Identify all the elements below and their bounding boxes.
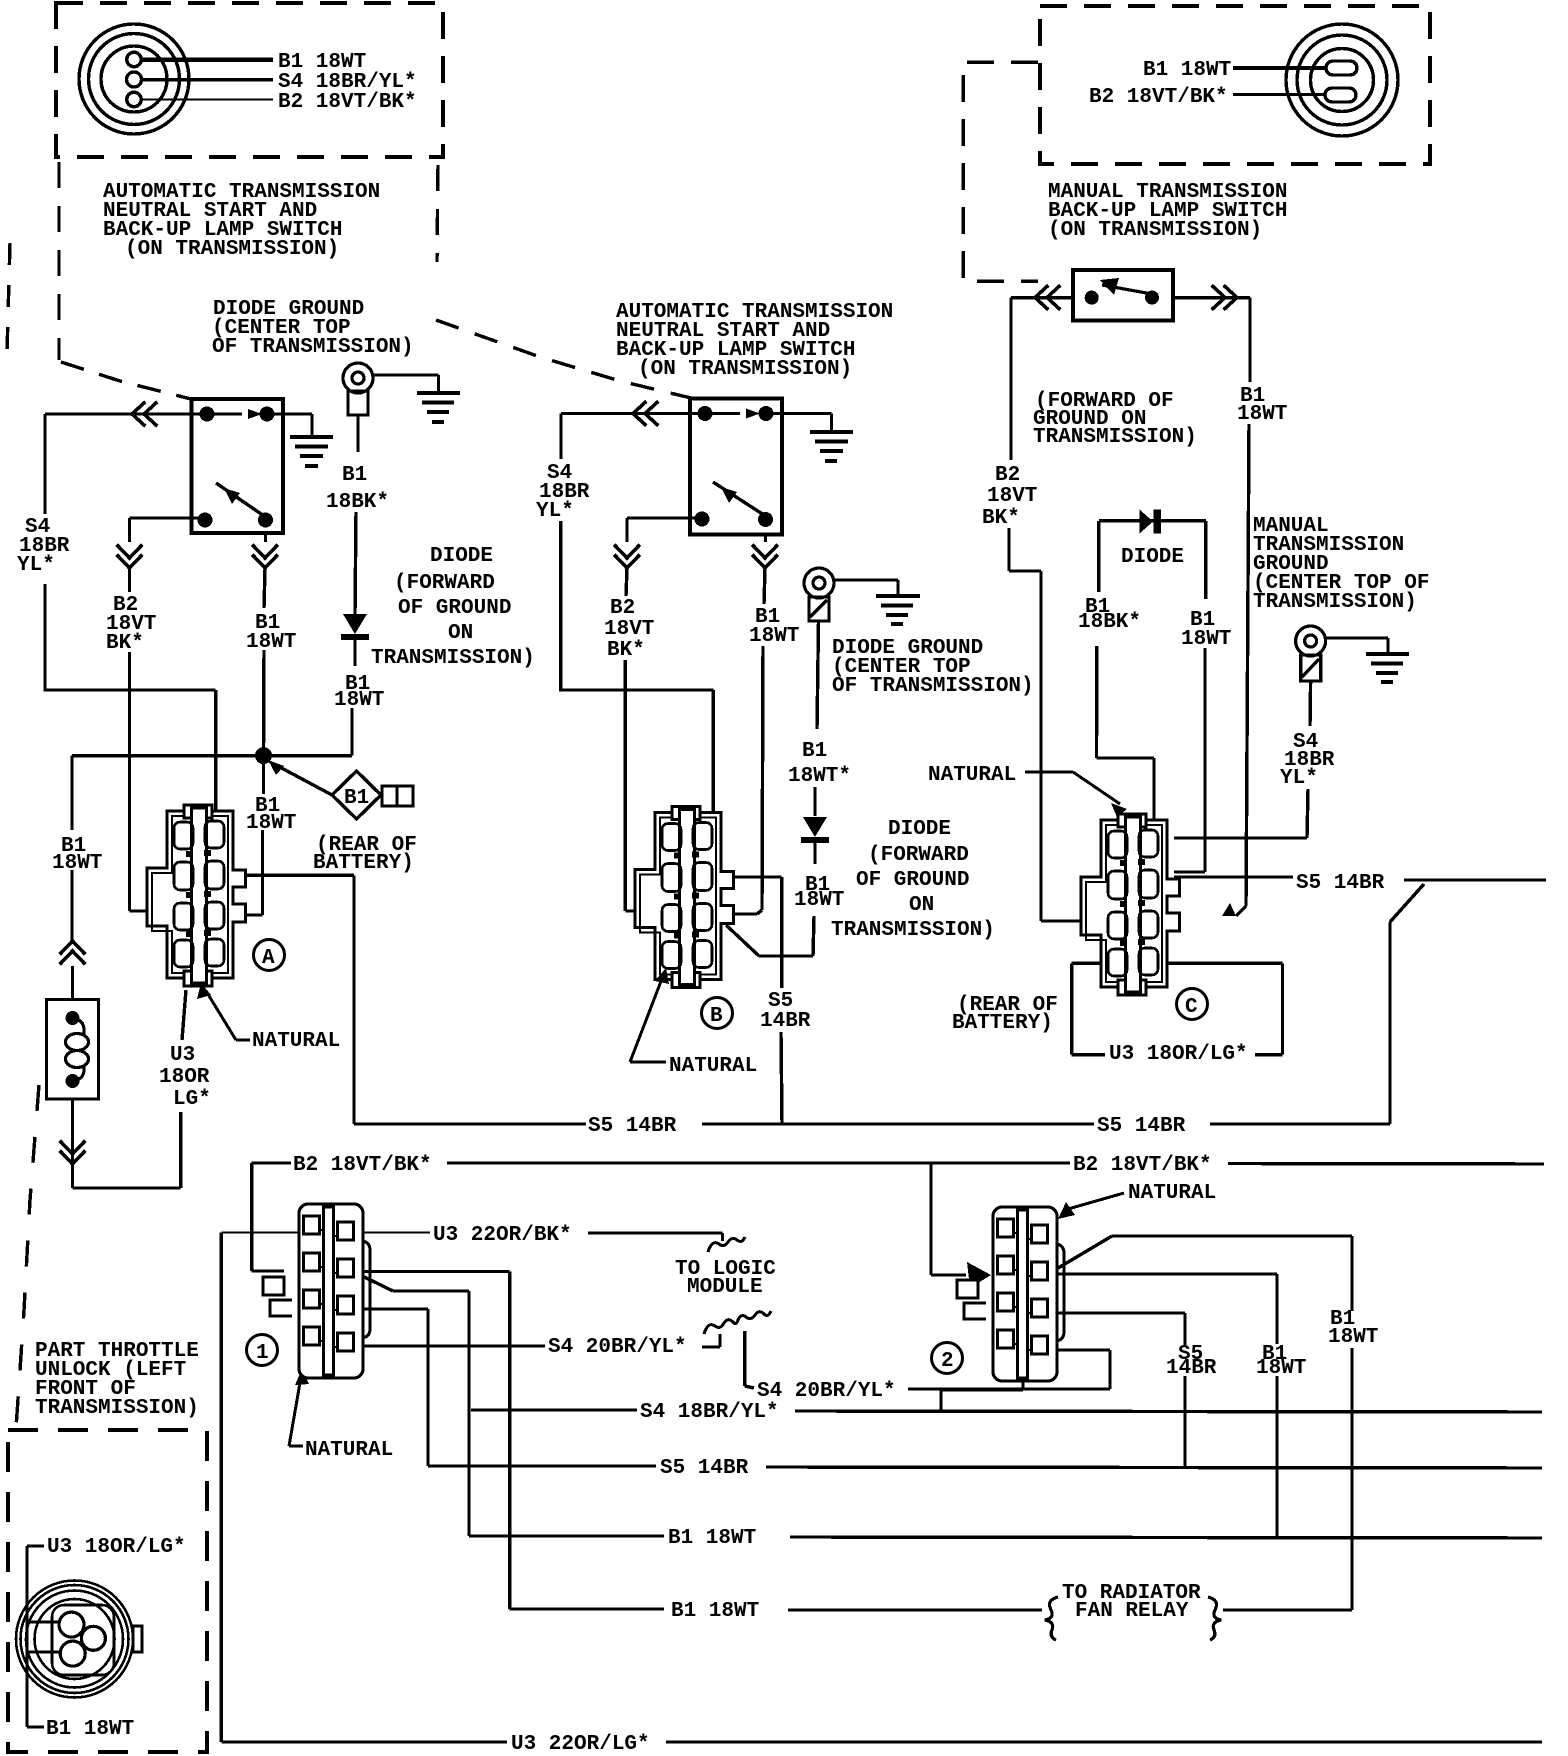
svg-text:S5 14BR: S5 14BR	[588, 1115, 677, 1138]
svg-text:18WT: 18WT	[794, 889, 844, 912]
svg-text:OF TRANSMISSION): OF TRANSMISSION)	[212, 336, 414, 359]
svg-text:TRANSMISSION): TRANSMISSION)	[1033, 426, 1197, 449]
svg-text:18WT: 18WT	[749, 625, 799, 648]
svg-text:B2: B2	[610, 597, 635, 620]
svg-text:U3 18OR/LG*: U3 18OR/LG*	[1109, 1043, 1248, 1066]
svg-text:B1: B1	[344, 787, 369, 810]
svg-text:ON: ON	[448, 622, 473, 645]
svg-text:B2 18VT/BK*: B2 18VT/BK*	[293, 1154, 432, 1177]
svg-text:18WT*: 18WT*	[788, 765, 851, 788]
svg-text:OF TRANSMISSION): OF TRANSMISSION)	[832, 675, 1034, 698]
svg-text:S5 14BR: S5 14BR	[660, 1457, 749, 1480]
svg-text:(FORWARD: (FORWARD	[394, 572, 495, 595]
svg-text:DIODE: DIODE	[888, 818, 951, 841]
svg-text:18WT: 18WT	[334, 689, 384, 712]
svg-text:18VT: 18VT	[604, 618, 654, 641]
svg-text:18WT: 18WT	[1181, 628, 1231, 651]
svg-text:B1 18WT: B1 18WT	[1143, 59, 1231, 82]
svg-text:14BR: 14BR	[760, 1010, 811, 1033]
svg-text:DIODE: DIODE	[430, 545, 493, 568]
svg-text:BATTERY): BATTERY)	[313, 852, 414, 875]
svg-text:18WT: 18WT	[1237, 403, 1287, 426]
svg-text:U3: U3	[170, 1044, 195, 1067]
svg-text:NATURAL: NATURAL	[1128, 1182, 1216, 1205]
svg-text:(ON TRANSMISSION): (ON TRANSMISSION)	[1048, 219, 1262, 242]
svg-text:S4 20BR/YL*: S4 20BR/YL*	[757, 1380, 896, 1403]
svg-text:NATURAL: NATURAL	[252, 1030, 340, 1053]
svg-text:LG*: LG*	[173, 1088, 211, 1111]
svg-text:B2 18VT/BK*: B2 18VT/BK*	[1089, 86, 1228, 109]
svg-text:MODULE: MODULE	[687, 1276, 763, 1299]
svg-text:B1: B1	[342, 464, 367, 487]
svg-text:18WT: 18WT	[52, 852, 102, 875]
svg-text:BK*: BK*	[607, 639, 645, 662]
svg-text:18WT: 18WT	[246, 631, 296, 654]
svg-text:NATURAL: NATURAL	[928, 764, 1016, 787]
svg-text:TRANSMISSION): TRANSMISSION)	[1253, 591, 1417, 614]
svg-text:18WT: 18WT	[1328, 1326, 1378, 1349]
svg-text:ON: ON	[909, 894, 934, 917]
svg-text:YL*: YL*	[1280, 767, 1318, 790]
svg-text:U3 22OR/BK*: U3 22OR/BK*	[433, 1224, 572, 1247]
svg-text:18BK*: 18BK*	[326, 491, 389, 514]
svg-text:NATURAL: NATURAL	[669, 1055, 757, 1078]
svg-text:(FORWARD: (FORWARD	[868, 844, 969, 867]
svg-text:18OR: 18OR	[159, 1066, 210, 1089]
svg-text:B2 18VT/BK*: B2 18VT/BK*	[1073, 1154, 1212, 1177]
svg-text:FAN RELAY: FAN RELAY	[1075, 1600, 1189, 1623]
svg-text:18VT: 18VT	[987, 485, 1037, 508]
svg-text:2: 2	[941, 1350, 954, 1373]
svg-text:18BK*: 18BK*	[1078, 611, 1141, 634]
svg-text:DIODE: DIODE	[1121, 546, 1184, 569]
svg-text:B1 18WT: B1 18WT	[46, 1718, 134, 1741]
svg-text:B2 18VT/BK*: B2 18VT/BK*	[278, 91, 417, 114]
svg-text:S4 20BR/YL*: S4 20BR/YL*	[548, 1336, 687, 1359]
svg-text:OF GROUND: OF GROUND	[856, 869, 969, 892]
svg-text:S5 14BR: S5 14BR	[1097, 1115, 1186, 1138]
svg-text:U3 22OR/LG*: U3 22OR/LG*	[511, 1733, 650, 1756]
svg-text:TRANSMISSION): TRANSMISSION)	[371, 647, 535, 670]
svg-text:B1 18WT: B1 18WT	[668, 1527, 756, 1550]
svg-text:TRANSMISSION): TRANSMISSION)	[35, 1397, 199, 1420]
svg-text:BATTERY): BATTERY)	[952, 1012, 1053, 1035]
svg-text:YL*: YL*	[536, 500, 574, 523]
svg-text:B1 18WT: B1 18WT	[671, 1600, 759, 1623]
svg-text:(ON TRANSMISSION): (ON TRANSMISSION)	[125, 238, 339, 261]
svg-text:TRANSMISSION): TRANSMISSION)	[831, 919, 995, 942]
svg-text:18WT: 18WT	[246, 812, 296, 835]
svg-text:(ON TRANSMISSION): (ON TRANSMISSION)	[638, 358, 852, 381]
svg-text:B1: B1	[802, 740, 827, 763]
svg-text:A: A	[262, 947, 275, 970]
svg-text:NATURAL: NATURAL	[305, 1439, 393, 1462]
svg-text:18WT: 18WT	[1256, 1357, 1306, 1380]
svg-text:C: C	[1185, 996, 1198, 1019]
svg-text:BK*: BK*	[106, 632, 144, 655]
svg-text:BK*: BK*	[982, 507, 1020, 530]
svg-text:B2: B2	[995, 464, 1020, 487]
svg-text:U3 18OR/LG*: U3 18OR/LG*	[47, 1536, 186, 1559]
svg-text:OF GROUND: OF GROUND	[398, 597, 511, 620]
svg-text:S5 14BR: S5 14BR	[1296, 872, 1385, 895]
svg-text:1: 1	[256, 1342, 269, 1365]
svg-text:B: B	[710, 1005, 723, 1028]
svg-text:YL*: YL*	[17, 554, 55, 577]
svg-text:S4 18BR/YL*: S4 18BR/YL*	[640, 1401, 779, 1424]
svg-text:14BR: 14BR	[1166, 1357, 1217, 1380]
